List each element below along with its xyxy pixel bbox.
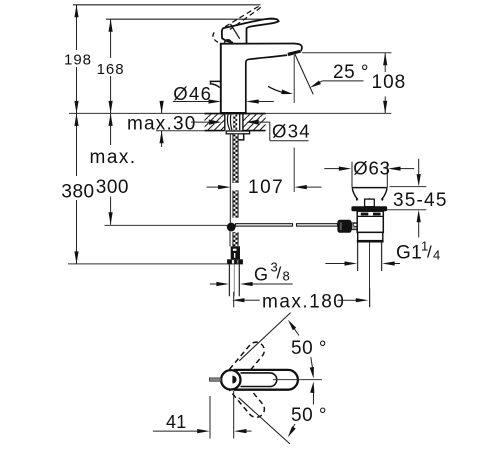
hose curves inside deck hole	[228, 114, 230, 130]
aerator dark wedge	[287, 50, 301, 56]
deck countertop left part	[205, 114, 225, 130]
leader max.30 arrow to shank	[191, 121, 210, 123]
dimension 380	[76, 113, 78, 176]
svg-text:35-45: 35-45	[393, 190, 448, 211]
dimension 108	[384, 53, 386, 72]
wire hose-end reference line (380 bottom)	[68, 263, 227, 265]
lever handle solid	[223, 18, 279, 43]
G3/8 connector nut	[227, 259, 243, 264]
mounting washer	[226, 131, 249, 134]
svg-text:/: /	[277, 264, 282, 283]
flow arc arrow	[268, 86, 284, 92]
50 deg upper ray	[239, 313, 290, 361]
braided hose segment 3	[233, 232, 239, 246]
drain lower box	[358, 232, 383, 240]
top view pivot circle	[221, 370, 240, 389]
svg-text:300: 300	[96, 177, 129, 198]
hose crimp sleeve	[231, 246, 240, 259]
braided hose segment 1	[233, 134, 239, 183]
drain neck curves	[352, 188, 357, 200]
shank right wall	[239, 114, 241, 130]
svg-text:max.: max.	[90, 147, 137, 168]
ball joint	[227, 223, 236, 232]
dashed lever rotated down 50 deg	[224, 373, 267, 420]
faucet body left edge	[220, 43, 222, 113]
dimension 107 spout projection	[207, 186, 219, 188]
actuating rod outlined	[236, 224, 293, 226]
wire 168 reference line	[106, 18, 277, 20]
lever front black tick	[232, 376, 236, 384]
svg-text:G: G	[254, 264, 268, 284]
svg-text:168: 168	[97, 61, 125, 78]
lever dome	[224, 40, 231, 43]
wire top reference line (198 max height)	[73, 4, 261, 6]
faucet body top edge	[220, 43, 295, 45]
centerline right	[273, 379, 322, 381]
svg-text:max.30: max.30	[127, 113, 197, 134]
pull rod wire	[229, 134, 231, 223]
wire spout height reference line	[302, 52, 392, 54]
left stub	[209, 378, 221, 381]
svg-text:4: 4	[433, 248, 440, 263]
svg-text:25 °: 25 °	[333, 62, 369, 83]
dimension 168	[110, 19, 112, 58]
drain lift notch	[365, 199, 375, 207]
drain rubber seal band	[351, 206, 387, 211]
dashed lever rotated up 50 deg	[224, 339, 267, 386]
svg-text:8: 8	[283, 268, 290, 283]
dimension max.300	[110, 113, 112, 145]
lever boss crease line	[231, 24, 240, 39]
svg-text:198: 198	[64, 51, 92, 68]
25 degree jet line	[295, 54, 314, 95]
dimension diameter 63	[324, 168, 339, 170]
faucet body bottom line	[220, 112, 247, 114]
braided hose in deck hole	[233, 114, 237, 130]
body protrusion hook left	[211, 81, 221, 87]
svg-text:/: /	[427, 243, 432, 262]
drain flange extension lines	[351, 162, 353, 188]
drain body box	[357, 211, 383, 232]
deck countertop right part	[243, 114, 266, 130]
top view outer stadium body	[235, 370, 298, 390]
svg-text:50 °: 50 °	[291, 405, 327, 426]
svg-text:50 °: 50 °	[291, 338, 327, 359]
spout tip outline	[294, 44, 302, 52]
dimension max.30 deck thickness	[156, 130, 214, 132]
top view inner lever outline	[241, 373, 277, 387]
50 deg lower ray	[239, 398, 290, 444]
svg-text:107: 107	[248, 177, 284, 198]
wire spout tip extension line	[293, 55, 295, 103]
dim 46 right arrow	[258, 101, 274, 103]
label diameter 34	[258, 121, 270, 123]
rod clamp knob	[337, 220, 351, 233]
dashed raised lever	[225, 6, 261, 30]
dimension max.180	[233, 292, 235, 308]
svg-text:380: 380	[61, 181, 94, 202]
svg-text:max.180: max.180	[262, 291, 345, 312]
drain centerline	[369, 198, 371, 307]
connector tail tube	[228, 264, 230, 296]
wire deck top reference line	[69, 112, 391, 114]
dimension G1 1/4	[325, 263, 345, 265]
dimension 41	[209, 396, 211, 439]
svg-text:108: 108	[372, 72, 407, 93]
spout underside and body right edge	[246, 55, 287, 113]
dashed rotated boss arc	[213, 32, 219, 42]
svg-text:G1: G1	[396, 243, 422, 264]
drain tailpipe	[357, 243, 359, 272]
mounting nut step	[239, 134, 244, 140]
dimension 198	[76, 5, 78, 50]
lever boss outline	[222, 28, 233, 42]
svg-text:Ø63: Ø63	[353, 158, 391, 179]
drain flange top	[352, 187, 387, 189]
dimension 35-45 basin thickness	[390, 186, 427, 188]
clamp pivot piece	[352, 223, 358, 230]
pull rod horizontal thin line	[105, 224, 228, 226]
svg-text:41: 41	[166, 412, 186, 432]
braided hose segment 2	[233, 190, 239, 217]
svg-text:Ø34: Ø34	[272, 120, 311, 141]
